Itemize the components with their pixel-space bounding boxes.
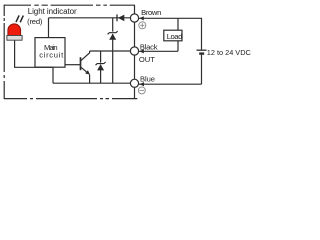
svg-text:Black: Black [140,42,158,51]
svg-text:Light indicator: Light indicator [28,7,77,16]
svg-text:Load: Load [167,32,183,41]
svg-text:Blue: Blue [140,75,155,84]
svg-text:12 to 24 VDC: 12 to 24 VDC [207,48,252,57]
svg-text:OUT: OUT [139,55,155,64]
svg-text:Brown: Brown [141,8,161,17]
svg-text:(red): (red) [27,17,43,26]
svg-text:circuit: circuit [39,51,64,60]
